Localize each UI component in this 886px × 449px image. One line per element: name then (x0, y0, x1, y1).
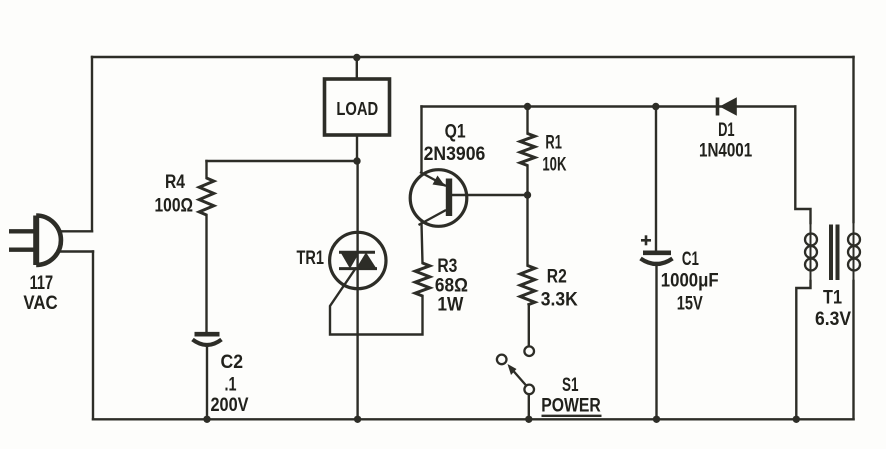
junction node top rail / LOAD (353, 54, 360, 61)
junction node Q1 base / R1 / R2 (524, 191, 531, 198)
wire T1 primary bottom lead (796, 281, 810, 419)
svg-text:117: 117 (30, 273, 53, 294)
wire R4 horizontal to node A (207, 160, 358, 162)
svg-text:.1: .1 (225, 375, 237, 396)
plug 117 VAC (9, 215, 61, 265)
svg-text:15V: 15V (677, 294, 703, 315)
svg-text:100Ω: 100Ω (155, 196, 194, 217)
junction node T1 primary bottom rail (793, 416, 800, 423)
wire Q1 base lead (452, 194, 528, 196)
transformer T1 core (831, 225, 838, 281)
svg-text:LOAD: LOAD (336, 99, 378, 119)
junction node C1 top (652, 103, 659, 110)
switch S1 (497, 346, 534, 394)
wire C1 top lead (655, 107, 657, 252)
resistor R1 (520, 134, 535, 166)
wire triac main vertical (356, 161, 358, 419)
wire Q1 collector lead to R3 (422, 224, 423, 264)
transformer T1 secondary winding (848, 222, 860, 281)
svg-text:R3: R3 (437, 256, 457, 277)
junction node C1 bottom rail (653, 416, 660, 423)
wire top rail (92, 56, 854, 58)
svg-text:C1: C1 (682, 249, 699, 270)
wire R2 top lead (526, 195, 528, 266)
svg-text:VAC: VAC (23, 293, 58, 314)
svg-text:1N4001: 1N4001 (699, 141, 753, 162)
resistor R3 (415, 263, 430, 296)
svg-text:C2: C2 (221, 352, 244, 373)
svg-text:1W: 1W (437, 295, 463, 316)
wire plug bottom lead (58, 250, 93, 252)
svg-text:68Ω: 68Ω (435, 276, 468, 297)
resistor R4 (199, 178, 214, 215)
svg-text:1000μF: 1000μF (661, 271, 719, 292)
svg-text:3.3K: 3.3K (541, 290, 578, 311)
wire T1 secondary bottom lead (852, 281, 854, 419)
svg-text:S1: S1 (562, 375, 579, 396)
wire D1 corner down to T1 primary (795, 107, 810, 224)
wire R4 top lead (205, 161, 207, 178)
wire Q1 emitter lead vertical (420, 107, 422, 173)
wire Q1 top horizontal rail to D1 corner (422, 105, 796, 107)
wire C1 bottom lead (655, 263, 657, 419)
transistor Q1 (410, 170, 467, 227)
wire R2 bottom lead to S1 (528, 305, 530, 346)
svg-text:2N3906: 2N3906 (424, 144, 486, 165)
svg-text:200V: 200V (211, 395, 249, 416)
svg-text:T1: T1 (823, 288, 842, 309)
wire T1 secondary top lead (852, 57, 854, 222)
wire LOAD bottom lead to R4 node (356, 135, 358, 161)
junction node LOAD / R4 / TR1 (353, 157, 360, 164)
wire R1 bottom to base node (526, 166, 528, 196)
triac TR1 (330, 232, 386, 288)
wire R4 bottom lead to C2 (205, 215, 207, 332)
svg-text:R4: R4 (165, 172, 185, 193)
capacitor C2 (193, 334, 222, 345)
svg-text:POWER: POWER (541, 396, 601, 417)
svg-text:TR1: TR1 (297, 248, 325, 269)
load box LOAD (325, 79, 390, 135)
junction node TR1 bottom rail (354, 416, 361, 423)
wire R1 top lead (526, 107, 528, 134)
junction node C2 bottom rail (203, 416, 210, 423)
svg-text:10K: 10K (542, 154, 566, 175)
capacitor C1 (641, 235, 673, 264)
svg-text:R1: R1 (545, 132, 562, 153)
wire S1 bottom lead (528, 394, 530, 419)
wire LOAD top lead (356, 57, 358, 79)
transformer T1 primary winding (805, 223, 817, 281)
wire left vertical lower (plug neutral to bottom rail) (92, 252, 94, 420)
wire bottom rail (93, 418, 854, 420)
junction node S1 bottom rail (525, 416, 532, 423)
svg-text:R2: R2 (547, 267, 567, 288)
wire left vertical upper (plug hot to top rail) (91, 57, 93, 231)
wire C2 bottom lead (206, 345, 208, 419)
junction node R1 top (524, 103, 531, 110)
diode D1 (718, 97, 737, 115)
svg-text:D1: D1 (718, 120, 735, 141)
svg-text:Q1: Q1 (445, 122, 466, 143)
wire TR1 gate lead (330, 269, 423, 335)
wire plug top lead (59, 230, 92, 232)
resistor R2 (520, 266, 535, 306)
svg-text:6.3V: 6.3V (815, 309, 851, 330)
